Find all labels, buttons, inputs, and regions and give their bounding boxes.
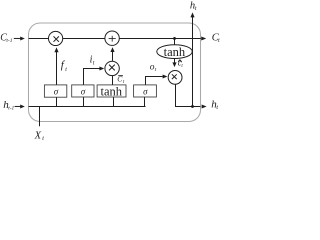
svg-text:σ: σ — [81, 87, 86, 97]
svg-text:tanh: tanh — [164, 45, 186, 59]
svg-text:σ: σ — [54, 87, 59, 97]
svg-text:σ: σ — [143, 87, 148, 97]
svg-text:tanh: tanh — [101, 85, 123, 99]
svg-text:t-1: t-1 — [6, 38, 12, 44]
svg-text:X: X — [34, 130, 42, 141]
svg-text:t-1: t-1 — [8, 106, 14, 112]
